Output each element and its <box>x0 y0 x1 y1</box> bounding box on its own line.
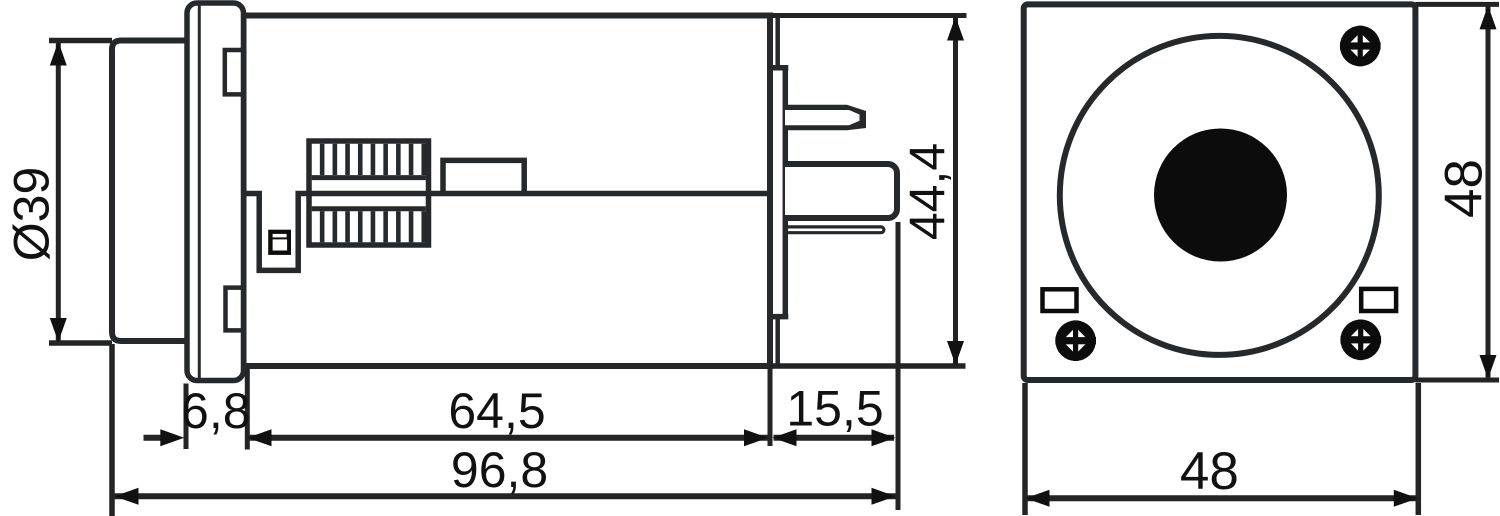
svg-text:64,5: 64,5 <box>448 383 545 439</box>
svg-text:44,4: 44,4 <box>900 143 956 240</box>
svg-text:15,5: 15,5 <box>786 381 883 437</box>
svg-text:48: 48 <box>1435 159 1494 218</box>
svg-text:48: 48 <box>1180 442 1239 501</box>
svg-text:Ø39: Ø39 <box>4 167 60 262</box>
svg-text:96,8: 96,8 <box>451 442 548 498</box>
svg-text:6,8: 6,8 <box>181 383 251 439</box>
